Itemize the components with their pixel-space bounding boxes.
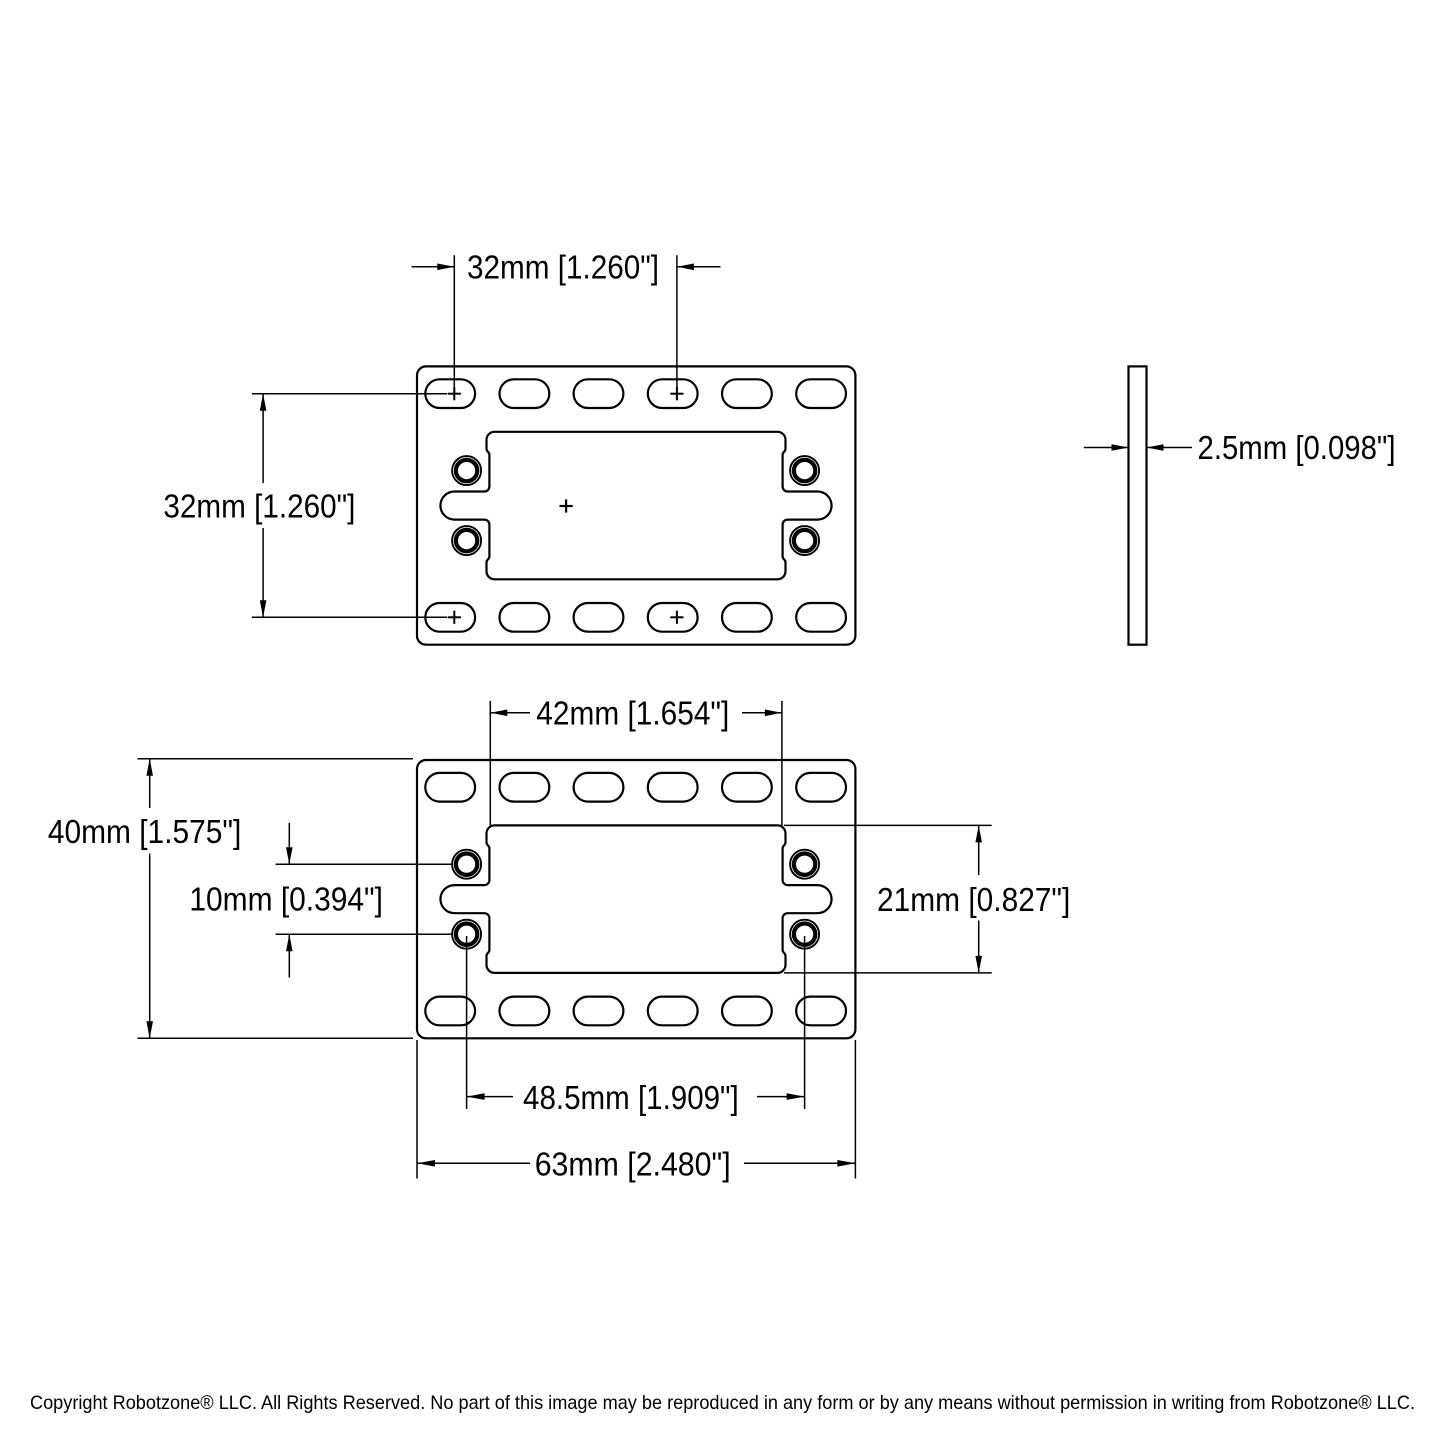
hole center cross slot T4 <box>670 387 683 400</box>
dim line upper segment <box>262 394 264 483</box>
slot row top (bottom view) <box>425 773 846 802</box>
svg-text:48.5mm [1.909"]: 48.5mm [1.909"] <box>523 1079 739 1116</box>
dim line lower segment <box>149 854 151 1039</box>
extension line left <box>453 255 455 390</box>
slot B1 <box>425 603 475 632</box>
servo cutout (bottom view) <box>440 825 831 973</box>
dim line upper segment <box>149 759 151 808</box>
slot B3 <box>574 603 624 632</box>
slot B5' <box>722 997 772 1026</box>
dimension 2.5mm thickness <box>1084 447 1192 449</box>
dimension 63mm (overall width, bottom) <box>417 1040 855 1179</box>
slot B2 <box>500 603 550 632</box>
center mark cross (servo shaft axis) <box>560 499 573 512</box>
dim arrow shaft left <box>417 1162 530 1164</box>
slot T1 <box>425 379 475 408</box>
dimension 32mm vertical (top view, left) <box>252 394 447 618</box>
extension line upper <box>276 863 453 865</box>
plate outline (top view) <box>417 366 855 644</box>
slot row bottom (bottom view) <box>425 997 846 1026</box>
dim line lower segment <box>262 528 264 617</box>
dimension 40mm (bottom view, far left) <box>137 759 413 1039</box>
servo screw hole top-right (double ring) <box>790 456 819 485</box>
slot T2 <box>500 379 550 408</box>
dimension 10mm (bottom view, inner left) <box>276 823 453 978</box>
arrow shaft upper (outside) <box>288 823 290 864</box>
extension line bottom <box>137 1037 413 1039</box>
extension line left <box>489 701 491 826</box>
hole center cross slot B1 <box>448 611 461 624</box>
slot T5' <box>722 773 772 802</box>
slot row top (6 obround slots) <box>425 379 846 408</box>
slot T4' <box>648 773 698 802</box>
svg-text:32mm [1.260"]: 32mm [1.260"] <box>163 487 355 524</box>
slot B2' <box>500 997 550 1026</box>
dim line lower segment <box>978 921 980 973</box>
hole center cross slot T1 <box>448 387 461 400</box>
svg-text:2.5mm [0.098"]: 2.5mm [0.098"] <box>1198 429 1396 466</box>
plate outline (bottom view) <box>417 760 855 1038</box>
slot T6 <box>796 379 846 408</box>
hole center cross slot B4 <box>670 611 683 624</box>
slot T3' <box>574 773 624 802</box>
slot T2' <box>500 773 550 802</box>
slot B4' <box>648 997 698 1026</box>
svg-text:10mm [0.394"]: 10mm [0.394"] <box>189 881 383 918</box>
slot T6' <box>796 773 846 802</box>
extension line top <box>137 758 413 760</box>
svg-text:42mm [1.654"]: 42mm [1.654"] <box>536 695 729 732</box>
slot B5 <box>722 603 772 632</box>
slot B3' <box>574 997 624 1026</box>
slot B6' <box>796 997 846 1026</box>
slot T3 <box>574 379 624 408</box>
extension line left <box>416 1040 418 1179</box>
dim arrow shaft right <box>757 1096 805 1098</box>
dimension 48.5mm (below bottom view) <box>467 936 805 1109</box>
dim arrow shaft right <box>742 712 782 714</box>
servo screw hole bottom-right (double ring) <box>790 526 819 555</box>
dim arrow shaft right <box>744 1162 855 1164</box>
extension line left <box>466 936 468 1109</box>
extension line right <box>854 1040 856 1179</box>
svg-text:32mm [1.260"]: 32mm [1.260"] <box>467 249 659 286</box>
thickness arrow left (outside) <box>1084 447 1129 449</box>
slot B1' <box>425 997 475 1026</box>
servo screw hole top-right (bottom view) <box>790 850 819 879</box>
slot row bottom (6 obround slots) <box>425 603 846 632</box>
slot T4 <box>648 379 698 408</box>
extension line right <box>781 701 783 826</box>
dim arrow shaft left <box>467 1096 513 1098</box>
extension line bottom <box>252 616 447 618</box>
dimension 42mm (bottom view, top) <box>490 701 782 826</box>
dimension 21mm (bottom view, right) <box>784 825 992 973</box>
servo cutout (center aperture with side notches) <box>440 432 831 580</box>
svg-text:40mm [1.575"]: 40mm [1.575"] <box>48 813 242 850</box>
servo screw hole bottom-left (double ring) <box>452 526 481 555</box>
svg-text:21mm [0.827"]: 21mm [0.827"] <box>877 881 1070 918</box>
servo screw hole bottom-right (bottom view) <box>790 920 819 949</box>
svg-text:63mm [2.480"]: 63mm [2.480"] <box>535 1145 731 1182</box>
arrow shaft lower (outside) <box>288 934 290 977</box>
extension line lower <box>276 933 453 935</box>
servo screw hole bottom-left (bottom view) <box>452 920 481 949</box>
extension line upper <box>784 824 992 826</box>
dimension 32mm horizontal (top view, top) <box>412 255 721 390</box>
dim arrow left (outside) <box>412 266 455 268</box>
side view plate thickness rectangle <box>1129 366 1147 644</box>
thickness arrow right (outside) <box>1147 447 1193 449</box>
dim line upper segment <box>978 825 980 875</box>
servo screw hole top-left (bottom view) <box>452 850 481 879</box>
slot B4 <box>648 603 698 632</box>
servo screw hole top-left (double ring) <box>452 456 481 485</box>
slot T5 <box>722 379 772 408</box>
extension line top <box>252 393 447 395</box>
dim arrow shaft left <box>490 712 530 714</box>
slot B6 <box>796 603 846 632</box>
extension line right <box>804 936 806 1109</box>
slot T1' <box>425 773 475 802</box>
dim arrow right (outside) <box>677 266 721 268</box>
extension line lower <box>784 972 992 974</box>
extension line right <box>676 255 678 390</box>
svg-text:Copyright Robotzone® LLC. All: Copyright Robotzone® LLC. All Rights Res… <box>30 1392 1415 1414</box>
